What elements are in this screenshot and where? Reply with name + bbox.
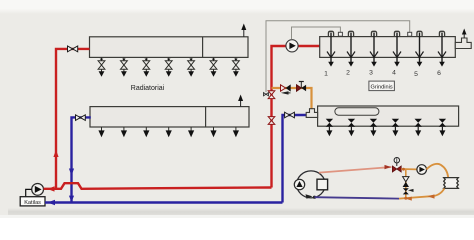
boiler pump P1 xyxy=(32,184,44,196)
red flow arrow at pump outlet xyxy=(48,186,55,191)
wire1 sensor square xyxy=(408,32,412,36)
brine pump P3 xyxy=(294,179,304,189)
radiator 1 air vent arrow xyxy=(241,24,246,37)
manifold circuit 4 xyxy=(393,31,401,66)
drain cock at wire1 end xyxy=(264,93,269,96)
label Grindinis box xyxy=(369,81,395,91)
manifold circuits 1-6 xyxy=(327,31,446,66)
floor heating return manifold body xyxy=(318,106,459,126)
return manifold valves with arrows xyxy=(326,119,446,136)
return manifold slot xyxy=(335,108,379,115)
collector bottom pipe curve xyxy=(432,188,445,196)
wire2 sensor square xyxy=(338,32,342,36)
radiator 2 outlet arrows xyxy=(98,127,239,137)
three-way mixing valve MV1 xyxy=(281,84,291,91)
blue return main xyxy=(45,201,283,203)
svg-text:6: 6 xyxy=(437,70,441,77)
radiator group 1 body xyxy=(90,37,249,58)
thermostat wire 1 xyxy=(266,21,410,92)
svg-text:Grindinis: Grindinis xyxy=(371,84,393,90)
thermostatic three-way valve MV2 xyxy=(392,158,401,173)
radiator 2 air vent arrow xyxy=(238,95,243,107)
circuit pipe with arrows xyxy=(330,33,332,64)
return manifold valve 3 xyxy=(370,119,377,136)
boiler Katilas box xyxy=(20,197,45,206)
radiator 1 outlet valve 3 xyxy=(143,57,150,76)
circuit numbers xyxy=(324,70,441,79)
mixing line orange xyxy=(272,88,312,109)
ground loop pump P4 xyxy=(417,165,427,175)
loop flow arrow xyxy=(306,194,313,199)
manifold circuit 6 xyxy=(438,31,446,66)
radiator 2 outlet arrow 4 xyxy=(166,127,172,137)
floor pump P2 xyxy=(286,40,298,52)
orange dot after valve xyxy=(402,168,405,171)
radiator 1 outlet valve 7 xyxy=(233,57,240,76)
pipe valve to pump P4 xyxy=(401,168,417,170)
return manifold valve 2 xyxy=(348,119,355,136)
valve V6 on blue branch xyxy=(285,112,295,118)
blue arrow into return main xyxy=(69,196,74,202)
manifold right end fitting with air vent xyxy=(455,38,471,49)
pipe hump to collector xyxy=(426,164,448,178)
red supply main with bump over blue riser xyxy=(44,183,272,189)
floor heating supply manifold body xyxy=(320,37,456,58)
flow arrow on brine supply xyxy=(385,165,392,169)
junction dot xyxy=(313,196,316,199)
radiator 2 outlet arrow 7 xyxy=(233,127,239,137)
flow arrow bottom orange xyxy=(428,194,435,198)
valve V3 on red riser xyxy=(268,91,275,99)
radiator 2 outlet arrow 3 xyxy=(143,127,149,137)
heat pump loop circle pipe xyxy=(297,171,326,198)
blue return riser radiators xyxy=(72,117,91,202)
manifold circuit 3 xyxy=(370,31,378,66)
return manifold valve 5 xyxy=(415,119,422,136)
radiator 1 outlet valves with arrows xyxy=(98,57,239,76)
flow arrow at mixing valve xyxy=(281,91,289,94)
return manifold left end fitting xyxy=(306,109,317,118)
bypass branch with check valve xyxy=(405,169,407,198)
radiator 1 outlet valve 2 xyxy=(121,57,128,76)
boiler control wire xyxy=(26,189,32,196)
air vent arrow on manifold xyxy=(462,29,467,39)
valve V7 on bypass xyxy=(403,188,414,194)
valve V1 on radiator 1 feed xyxy=(68,46,78,52)
svg-text:Radiatoriai: Radiatoriai xyxy=(131,85,165,92)
svg-text:4: 4 xyxy=(392,70,396,77)
radiator 1 outlet valve 6 xyxy=(210,57,217,76)
manifold circuit 2 xyxy=(347,31,355,66)
bottom shadow band xyxy=(8,208,474,216)
check valve CV1 xyxy=(403,177,409,187)
radiator 1 outlet valve 5 xyxy=(188,57,195,76)
svg-text:1: 1 xyxy=(324,71,328,78)
bottom light band xyxy=(0,215,474,218)
red riser to manifolds xyxy=(272,46,320,188)
heat exchanger box xyxy=(317,179,328,190)
brine bottom pipe orange section xyxy=(399,196,432,198)
red flow arrow up on riser xyxy=(53,150,58,157)
svg-text:5: 5 xyxy=(414,71,418,78)
valve V4 on red riser xyxy=(268,117,275,125)
svg-text:3: 3 xyxy=(369,70,373,77)
top white band xyxy=(0,0,474,14)
radiator group 2 body xyxy=(90,107,249,127)
radiator 1 outlet valve 4 xyxy=(165,57,172,76)
red supply riser for radiators xyxy=(56,49,90,189)
radiator 2 outlet arrow 6 xyxy=(210,127,216,137)
return manifold valve 4 xyxy=(392,119,399,136)
blue flow arrow down on riser xyxy=(69,169,74,176)
junction dot bypass bottom xyxy=(404,197,407,200)
brine bottom pipe violet section xyxy=(315,197,400,198)
radiator 2 outlet arrow 2 xyxy=(121,127,127,137)
manifold circuit 5 xyxy=(416,31,424,66)
svg-text:2: 2 xyxy=(346,70,350,77)
balancing valve V5 xyxy=(297,82,307,92)
return manifold valve 6 xyxy=(439,119,446,136)
brine supply pipe salmon xyxy=(319,167,392,173)
ground collector bellows xyxy=(444,178,459,189)
svg-text:Katilas: Katilas xyxy=(24,200,41,206)
actuator xyxy=(328,31,333,37)
thermostat wire 2 xyxy=(292,27,341,40)
radiator 2 outlet arrow 5 xyxy=(188,127,194,137)
valve V2 on radiator 2 pipe xyxy=(76,115,86,121)
blue flow arrow into boiler xyxy=(48,200,56,205)
small arrow bottom mid xyxy=(405,197,412,201)
blue branch to lower manifold xyxy=(283,115,307,203)
